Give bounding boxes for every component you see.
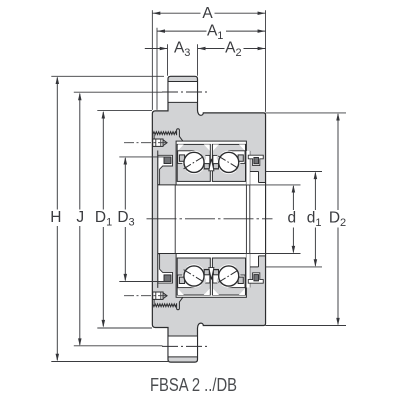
seal groove (left upper) xyxy=(158,155,173,184)
extension H bottom xyxy=(51,361,169,363)
seal ring (right lower) xyxy=(254,275,259,281)
bearing axis centerline xyxy=(147,218,273,220)
dimension J xyxy=(79,94,81,210)
dimension D3 xyxy=(124,158,126,210)
dimension D1 xyxy=(102,112,104,210)
bearing stack right face in bore xyxy=(245,185,247,254)
bearing L1: washers xyxy=(177,258,210,295)
bolt hole axis (bottom) xyxy=(162,345,209,347)
extension d1 bottom xyxy=(266,266,322,268)
bearing L1: ball xyxy=(184,266,204,286)
svg-text:d: d xyxy=(287,209,296,226)
bearing U1: raceway groove xyxy=(194,155,210,169)
extension D1 top xyxy=(97,109,152,111)
extension line A1 left xyxy=(156,28,158,110)
clearance gap bearing/flange upper xyxy=(246,151,249,185)
housing body outline with flange lugs xyxy=(152,76,265,362)
thread runout tab lower xyxy=(177,297,183,310)
locknut thread (lower) xyxy=(153,304,177,307)
bearing L2: raceway groove xyxy=(229,275,245,288)
locknut inner edge line xyxy=(174,185,176,254)
svg-text:H: H xyxy=(50,209,61,226)
bearing U1: race corner bevels xyxy=(178,144,184,150)
bearing L1: raceway groove xyxy=(194,269,210,283)
flange front face lower xyxy=(249,267,251,288)
bore top line (d bore) xyxy=(158,184,250,186)
dimension A3 xyxy=(145,48,168,50)
flange bore d1 lower xyxy=(250,266,259,268)
locknut set screw (lower) xyxy=(153,292,163,299)
bearing U2: cage bar xyxy=(238,155,243,161)
dimension d xyxy=(292,186,294,210)
bearing U2: contact-angle line xyxy=(218,156,239,169)
extension D2 bottom xyxy=(266,325,346,327)
bearing L1: cage bar xyxy=(204,270,209,275)
extension D2 top xyxy=(266,112,346,114)
bearing U1: ball xyxy=(184,152,204,172)
bearing L2: cage bar xyxy=(213,270,218,275)
bore bottom line xyxy=(158,253,250,255)
extension H top xyxy=(51,75,164,77)
dimension A2 xyxy=(198,47,206,51)
extension line A left xyxy=(151,10,153,110)
bearing L2: ball xyxy=(219,266,239,286)
dimension A1 xyxy=(157,30,207,32)
extension d top xyxy=(244,184,301,186)
extension D1 bottom xyxy=(97,327,152,329)
upper bearing pair envelope xyxy=(176,141,246,185)
extension line A3/A2 xyxy=(197,44,199,76)
bearing U2: ball xyxy=(219,152,239,172)
seal groove (right lower) xyxy=(248,273,263,283)
seal groove (right upper) xyxy=(248,155,263,165)
extension line A3 left xyxy=(167,44,169,76)
clearance gap bearing/flange lower xyxy=(246,254,249,288)
seal ring (left upper) xyxy=(164,157,171,164)
svg-text:A: A xyxy=(202,5,213,22)
bearing U2: raceway groove xyxy=(213,155,229,169)
bearing L2: washers xyxy=(212,258,245,295)
flange front face upper xyxy=(249,151,251,172)
thread runout tab upper xyxy=(177,129,183,142)
bearing U1: raceway groove xyxy=(178,151,194,164)
bearing U1: washers xyxy=(177,144,210,181)
lower bearing pair envelope xyxy=(176,254,246,298)
extension d bottom xyxy=(244,253,301,255)
locknut set screw (upper) xyxy=(153,139,163,146)
inner-ring lip notch lower xyxy=(209,268,214,280)
sleeve inner wall line xyxy=(157,151,159,288)
bolt hole (top lug) xyxy=(169,82,197,103)
bearing U2: washers xyxy=(212,144,245,181)
central bore cavity xyxy=(158,172,265,267)
svg-text:J: J xyxy=(76,209,84,226)
locknut thread (upper) xyxy=(153,132,177,135)
bearing L2: race corner bevels xyxy=(213,289,219,295)
dimension H xyxy=(56,78,58,210)
extension d1 top xyxy=(266,171,322,173)
bolt hole (bottom lug) xyxy=(169,336,197,357)
bearing L1: raceway groove xyxy=(178,275,194,288)
flange bore d1 upper xyxy=(250,171,259,173)
bearing L2: cage bar xyxy=(238,277,243,283)
dimension A xyxy=(152,12,200,14)
bearing L1: cage bar xyxy=(179,277,184,283)
bearing U2: cage bar xyxy=(213,164,218,169)
seal groove (left lower) xyxy=(158,254,173,283)
extension D3 top xyxy=(119,156,171,158)
bearing U2: race corner bevels xyxy=(213,144,219,150)
bearing U1: cage bar xyxy=(204,164,209,169)
extension J bottom xyxy=(74,345,163,347)
svg-text:FBSA 2 ../DB: FBSA 2 ../DB xyxy=(150,375,237,395)
dimension D2 xyxy=(337,114,339,210)
bolt hole axis (top) xyxy=(162,91,209,93)
bearing L2: contact-angle line xyxy=(218,270,239,283)
seal ring (left lower) xyxy=(164,275,171,282)
extension line A/A1/A2 right xyxy=(265,10,267,112)
seal ring (right upper) xyxy=(254,158,259,164)
bearing U2: raceway groove xyxy=(229,151,245,164)
bearing L1: race corner bevels xyxy=(178,289,184,295)
dimension d1 xyxy=(314,173,316,210)
bearing L2: raceway groove xyxy=(213,269,229,283)
extension J top xyxy=(74,91,163,93)
inner-ring lip notch upper xyxy=(209,159,214,171)
bearing L1: contact-angle line xyxy=(184,270,205,283)
bearing U1: cage bar xyxy=(179,155,184,161)
extension D3 bottom xyxy=(119,281,171,283)
bearing U1: contact-angle line xyxy=(184,156,205,169)
